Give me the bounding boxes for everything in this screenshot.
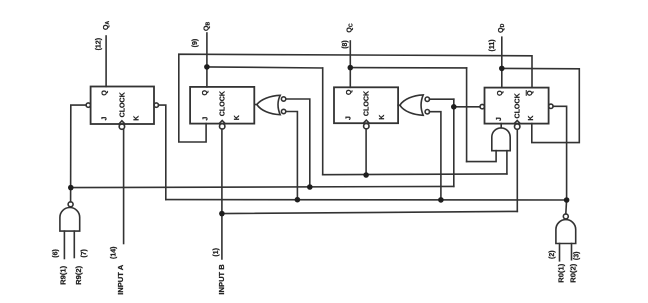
wire QB output pin (9): [206, 33, 208, 87]
wire U3 clock drop: [365, 129, 367, 175]
node U3 clock on QB rail: [363, 172, 369, 178]
pin label (14) INPUT A: [111, 246, 125, 294]
node R0 at NAND G2 output: [564, 197, 570, 203]
svg-text:Q: Q: [346, 89, 353, 95]
flip-flop U4 reset bubble: [549, 104, 553, 108]
wire gate G4 lower input to R0 rail: [430, 112, 441, 200]
svg-text:CLOCK: CLOCK: [514, 92, 522, 118]
wire gate G3 upper input to R9 rail: [286, 99, 310, 187]
wire gate G4 upper input: [430, 98, 454, 100]
gate G4 output stub: [398, 104, 400, 106]
svg-text:INPUT B: INPUT B: [217, 264, 226, 295]
svg-text:(8): (8): [342, 40, 349, 49]
pin label (11) QD: [489, 23, 506, 51]
pin label (3) R0(2): [569, 252, 581, 283]
svg-text:K: K: [234, 115, 241, 120]
svg-text:QD: QD: [498, 23, 506, 32]
svg-text:(11): (11): [489, 39, 496, 51]
NAND gate G1 (R9 set gate) body: [60, 208, 80, 232]
svg-text:(9): (9): [192, 39, 199, 48]
negative-OR gate G4 (clear of C) body: [400, 95, 423, 115]
wire QC rail: [350, 67, 466, 69]
wire QC to G5 left input: [467, 151, 497, 162]
svg-text:Q: Q: [497, 90, 504, 96]
pin label (7) R9(2): [74, 249, 88, 285]
flip-flop U2 labels: [202, 89, 241, 120]
flip-flop U3 (C) box: [334, 87, 398, 123]
svg-text:QB: QB: [203, 22, 211, 31]
pin label (12) QA: [95, 21, 111, 51]
flip-flop U4 (D) box: [485, 88, 549, 124]
flip-flop U4 clock bubble: [515, 124, 520, 129]
svg-text:Q: Q: [102, 90, 109, 96]
svg-text:CLOCK: CLOCK: [363, 90, 371, 116]
AND gate G5 (J input of D) body: [492, 128, 510, 151]
gate G4 lower input bubble: [425, 110, 429, 114]
flip-flop U4 labels: [496, 90, 535, 121]
wire gate G3 lower input to R0 rail: [286, 112, 298, 200]
flip-flop U2 clock caret: [219, 121, 225, 124]
svg-text:CLOCK: CLOCK: [219, 90, 227, 116]
wire U4 clock riser: [516, 129, 518, 211]
svg-text:R9(1): R9(1): [59, 265, 68, 284]
flip-flop U3 labels: [346, 89, 387, 120]
svg-text:J: J: [346, 116, 353, 120]
wire R9 rail: [71, 186, 454, 187]
wire R9 riser to U4 set: [453, 99, 455, 186]
pin label (8) QC: [342, 23, 355, 49]
wire QC output pin (8): [349, 41, 351, 87]
gate G3 upper input bubble: [281, 97, 285, 101]
node input B: [219, 211, 225, 217]
svg-text:J: J: [202, 117, 209, 121]
svg-text:R0(2): R0(2): [569, 263, 578, 282]
pin label (2) R0(1): [549, 250, 566, 282]
svg-text:K: K: [528, 116, 535, 121]
svg-text:QA: QA: [103, 21, 111, 30]
wire R0 rail: [166, 199, 567, 201]
wire QB drop: [322, 68, 324, 175]
node G3 lower on R0 rail: [295, 197, 301, 203]
svg-text:(6): (6): [53, 249, 60, 258]
NAND gate G2 input pin (3): [571, 244, 573, 260]
flip-flop U1 clock caret: [119, 121, 125, 124]
wire QC drop: [466, 68, 468, 162]
wire QB rail upper: [207, 67, 323, 68]
flip-flop U4 set bubble: [480, 104, 484, 108]
wire QD-bar feedback to J of B: [179, 54, 532, 142]
NAND gate G2 output bubble: [563, 214, 568, 219]
NAND gate G2 (R0 reset gate) body: [556, 220, 576, 244]
svg-text:K: K: [134, 116, 141, 121]
NAND gate G1 output bubble: [68, 202, 73, 207]
wire input B rail to U4 clock: [222, 211, 517, 213]
flip-flop U4 clock caret: [514, 121, 520, 124]
node QC: [348, 65, 354, 71]
svg-text:(12): (12): [95, 38, 102, 50]
wire QD rail to K of D: [502, 68, 580, 142]
negative-OR gate G3 (clear of B) body: [257, 95, 280, 114]
svg-text:K: K: [379, 115, 386, 120]
pin label (6) R9(1): [53, 249, 68, 285]
wire QB rail lower: [323, 173, 507, 176]
flip-flop U1 labels: [102, 90, 141, 121]
wire NAND G2 output stub: [565, 200, 568, 214]
svg-text:R9(2): R9(2): [74, 265, 83, 284]
svg-text:QC: QC: [347, 23, 355, 32]
flip-flop U2 (B) box: [190, 87, 254, 124]
gate G3 output stub: [254, 104, 257, 106]
wire QB riser to G5 right input: [506, 151, 508, 174]
flip-flop U1 reset bubble: [154, 103, 158, 107]
svg-text:J: J: [102, 117, 109, 121]
svg-text:(1): (1): [213, 248, 220, 257]
svg-text:(2): (2): [549, 250, 556, 259]
svg-text:INPUT A: INPUT A: [116, 264, 125, 295]
svg-text:CLOCK: CLOCK: [119, 91, 127, 117]
pin label (1) INPUT B: [213, 248, 226, 295]
svg-text:Q: Q: [202, 89, 209, 95]
node QB: [204, 64, 210, 70]
svg-text:(14): (14): [111, 246, 118, 258]
wire input B riser to U2 clock: [221, 129, 223, 259]
svg-text:Q: Q: [527, 90, 534, 96]
node QD: [499, 66, 505, 72]
AND gate G5 output stub: [500, 124, 502, 128]
svg-text:J: J: [496, 117, 503, 121]
node U4 set branch: [451, 104, 457, 110]
flip-flop U3 clock bubble: [364, 124, 369, 129]
wire input A riser: [123, 129, 125, 243]
gate G3 lower input bubble: [281, 109, 285, 113]
NAND gate G1 input pin (6): [63, 231, 65, 258]
svg-text:R0(1): R0(1): [556, 263, 565, 282]
wire R9 riser to U1 set: [71, 105, 87, 202]
node G3 upper on R9 rail: [307, 184, 313, 190]
svg-text:(3): (3): [574, 252, 581, 261]
flip-flop U3 clock caret: [363, 120, 369, 123]
node R9 at NAND G1 output: [68, 185, 74, 191]
flip-flop U1 (A) box: [91, 87, 154, 125]
flip-flop U1 clock bubble: [119, 124, 124, 129]
svg-text:(7): (7): [81, 249, 88, 258]
wire QA output pin (12): [105, 36, 107, 87]
flip-flop U2 clock bubble: [220, 124, 225, 129]
wire U4 reset branch: [553, 106, 567, 200]
flip-flop U1 set bubble: [86, 103, 90, 107]
wire R9 branch to U4 set bubble: [454, 106, 480, 108]
NAND gate G2 input pin (2): [559, 244, 561, 261]
gate G4 upper input bubble: [425, 97, 429, 101]
wire U1 reset branch: [159, 105, 166, 200]
node G4 lower on R0 rail: [438, 197, 444, 203]
pin label (9) QB: [192, 22, 212, 48]
NAND gate G1 input pin (7): [73, 231, 75, 257]
wire QD output pin (11): [501, 37, 503, 87]
